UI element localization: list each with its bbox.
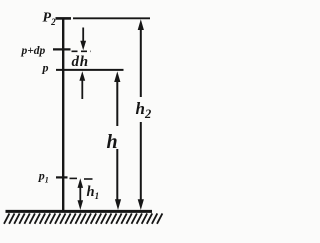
p1 level tick on spine: [56, 176, 68, 178]
P2 level tick on spine: [56, 17, 72, 20]
svg-text:h: h: [107, 131, 118, 153]
dh upper arrow (pointing down to p+dp level): [80, 28, 86, 51]
column spine (vertical pressure axis): [62, 18, 64, 212]
dh lower arrow (pointing up to p level): [79, 71, 85, 99]
h1 dimension arrow (p1 level to ground): [78, 178, 84, 210]
p+dp level tick on spine: [53, 48, 71, 50]
P2 level top line: [73, 17, 150, 19]
svg-text:dh: dh: [72, 54, 89, 70]
h2 dimension arrow (P2 level to ground): [138, 19, 144, 210]
svg-text:p: p: [42, 61, 49, 75]
ground line: [6, 210, 153, 213]
h dimension arrow (p level to ground): [114, 71, 121, 210]
p+dp level dashed extension: [72, 50, 92, 52]
ground hatching: [4, 213, 162, 223]
svg-text:p+dp: p+dp: [21, 45, 46, 57]
p level line (tick + extension under dh): [56, 69, 124, 71]
p1 level dashed extension: [70, 177, 78, 179]
